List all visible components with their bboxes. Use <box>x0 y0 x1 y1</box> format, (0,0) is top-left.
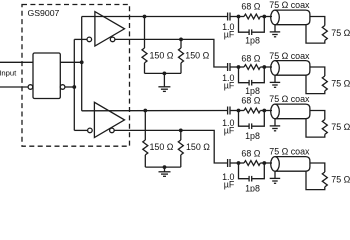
wire: into coax channel 4 <box>264 162 272 164</box>
junction dot: coax input node channel 1 <box>262 15 266 19</box>
capacitor C1a 1.0 uF (series coupling) <box>228 13 239 21</box>
junction dot: true output node <box>80 60 84 64</box>
resistor 68 ohm (series, channel 3) <box>239 108 265 113</box>
ground symbol at coax shield (channel 1) <box>270 25 281 37</box>
inverting bubble at A1 lower input <box>87 37 92 42</box>
ground symbol (R3/R4) <box>159 167 171 176</box>
svg-text:1p8: 1p8 <box>245 183 260 192</box>
junction dot: C1a / R 68 / C 1p8 node <box>237 15 241 19</box>
75 ohm coax transmission line (channel 2) <box>271 61 310 76</box>
wire: R1/R2 ground join <box>145 72 182 74</box>
svg-text:75 Ω: 75 Ω <box>331 122 350 132</box>
wire: net C (A2 true out) y=110.5 <box>82 110 228 112</box>
wire: U1 complement output to riser <box>65 86 74 88</box>
svg-text:150 Ω: 150 Ω <box>150 142 174 152</box>
svg-text:1p8: 1p8 <box>245 36 260 46</box>
wire: coax centre out to terminator (channel 3) <box>310 111 325 120</box>
capacitor 1p8 (parallel with 68 ohm, channel 2) <box>239 67 265 86</box>
inverting bubble A2 complement output <box>110 128 115 133</box>
inverting bubble A1 complement output <box>110 37 115 42</box>
resistor R3 150 ohm (net C to gnd) <box>143 111 148 168</box>
wire: coax centre out to terminator (channel 4) <box>310 163 325 172</box>
svg-text:75 Ω: 75 Ω <box>331 174 350 184</box>
inverting bubble U1 lower output <box>60 85 65 90</box>
wire: net B (A1 complement out) y=39.4 <box>115 39 227 67</box>
svg-text:68 Ω: 68 Ω <box>241 96 260 106</box>
wire: R3/R4 ground join <box>145 166 181 168</box>
svg-text:GS9007: GS9007 <box>28 8 60 18</box>
junction dot: complement output node <box>72 85 76 89</box>
resistor R1 150 ohm (net A to gnd) <box>142 17 147 74</box>
input buffer U1 (rectangle) <box>33 53 60 99</box>
resistor 68 ohm (series, channel 4) <box>239 161 265 166</box>
svg-text:1p8: 1p8 <box>245 86 260 96</box>
junction dot net B at R2 tap <box>179 38 183 42</box>
wire: true riser vertical <box>81 17 83 111</box>
capacitor 1p8 (parallel with 68 ohm, channel 1) <box>239 17 265 36</box>
svg-text:75 Ω coax: 75 Ω coax <box>269 147 310 157</box>
capacitor C3a 1.0 uF (series coupling) <box>228 107 239 115</box>
svg-text:150 Ω: 150 Ω <box>186 142 210 152</box>
wire: into coax channel 2 <box>264 66 272 68</box>
ground symbol (R1/R2) <box>158 73 170 91</box>
svg-text:75 Ω: 75 Ω <box>331 28 350 38</box>
75 ohm coax transmission line (channel 4) <box>271 157 310 172</box>
resistor 68 ohm (series, channel 2) <box>239 65 265 70</box>
wire: complement riser vertical <box>73 39 75 130</box>
resistor 68 ohm (series, channel 1) <box>239 14 265 19</box>
junction dot: C4a / R 68 / C 1p8 node <box>237 161 241 165</box>
resistor 75 ohm terminator (channel 1) <box>322 26 327 41</box>
svg-text:68 Ω: 68 Ω <box>241 2 260 12</box>
inverting bubble at A2 lower input <box>88 128 93 133</box>
wire: coax centre out to terminator (channel 2) <box>310 67 325 76</box>
resistor 75 ohm terminator (channel 4) <box>322 172 327 187</box>
svg-text:µF: µF <box>224 180 235 190</box>
junction dot net C at R3 tap <box>143 109 147 113</box>
wire: terminator return to shield (channel 2) <box>306 75 325 93</box>
resistor 75 ohm terminator (channel 2) <box>322 76 327 91</box>
wire: input true (top) into U1 <box>0 61 33 63</box>
svg-text:µF: µF <box>224 125 235 135</box>
wire: complement feed to A2 bubble <box>74 129 87 131</box>
svg-text:150 Ω: 150 Ω <box>150 51 174 61</box>
junction dot: C2a / R 68 / C 1p8 node <box>237 65 241 69</box>
junction dot: coax input node channel 4 <box>262 161 266 165</box>
junction dot ground join bottom <box>163 165 167 169</box>
ground symbol at coax shield (channel 2) <box>270 75 281 87</box>
resistor R4 150 ohm (net D to gnd) <box>178 130 183 167</box>
capacitor C4a 1.0 uF (series coupling) <box>228 159 239 167</box>
channel output networks <box>222 0 350 193</box>
svg-text:µF: µF <box>224 81 235 91</box>
junction dot net A at R1 tap <box>143 15 147 19</box>
junction dot: coax input node channel 2 <box>262 65 266 69</box>
wire: input complement (bottom) into U1 bubble <box>0 86 28 88</box>
junction dot ground join top <box>163 72 167 76</box>
wire: net A (A1 true out) y=16.5 <box>82 16 228 18</box>
inverting bubble U1 lower input <box>28 85 33 90</box>
svg-text:µF: µF <box>224 30 235 40</box>
wire: terminator return to shield (channel 3) <box>306 119 325 137</box>
wire: into coax channel 1 <box>264 16 272 18</box>
75 ohm coax transmission line (channel 1) <box>271 10 310 25</box>
svg-text:Input: Input <box>0 69 17 78</box>
wire: coax centre out to terminator (channel 1) <box>310 17 325 26</box>
resistor R2 150 ohm (net B to gnd) <box>179 39 184 73</box>
junction dot net D at R4 tap <box>179 129 183 133</box>
capacitor 1p8 (parallel with 68 ohm, channel 3) <box>239 111 265 130</box>
junction dot: coax input node channel 3 <box>262 109 266 113</box>
junction dot: C3a / R 68 / C 1p8 node <box>237 109 241 113</box>
capacitor C2a 1.0 uF (series coupling) <box>228 63 239 71</box>
wire: terminator return to shield (channel 1) <box>306 25 325 43</box>
svg-text:150 Ω: 150 Ω <box>185 51 209 61</box>
wire: terminator return to shield (channel 4) <box>306 171 325 189</box>
wire: U1 true output to riser <box>60 61 81 63</box>
capacitor 1p8 (parallel with 68 ohm, channel 4) <box>239 163 265 182</box>
output driver A2 (triangle) <box>94 102 124 137</box>
75 ohm coax transmission line (channel 3) <box>271 104 310 119</box>
svg-text:75 Ω: 75 Ω <box>331 79 350 89</box>
svg-text:68 Ω: 68 Ω <box>241 149 260 159</box>
ground symbol at coax shield (channel 4) <box>270 171 281 183</box>
svg-text:1p8: 1p8 <box>245 131 260 141</box>
output driver A1 (triangle) <box>95 12 125 46</box>
svg-text:75 Ω coax: 75 Ω coax <box>269 94 310 104</box>
IC boundary GS9007 (dashed box) <box>22 5 130 147</box>
resistor 75 ohm terminator (channel 3) <box>322 120 327 135</box>
wire: into coax channel 3 <box>264 110 272 112</box>
svg-text:75 Ω coax: 75 Ω coax <box>269 0 310 10</box>
svg-text:68 Ω: 68 Ω <box>241 54 260 64</box>
svg-text:75 Ω coax: 75 Ω coax <box>269 51 310 61</box>
wire: net D (A2 complement out) y=130.4 <box>114 130 227 163</box>
wire: complement feed to A1 bubble <box>74 38 87 40</box>
ground symbol at coax shield (channel 3) <box>270 119 281 131</box>
